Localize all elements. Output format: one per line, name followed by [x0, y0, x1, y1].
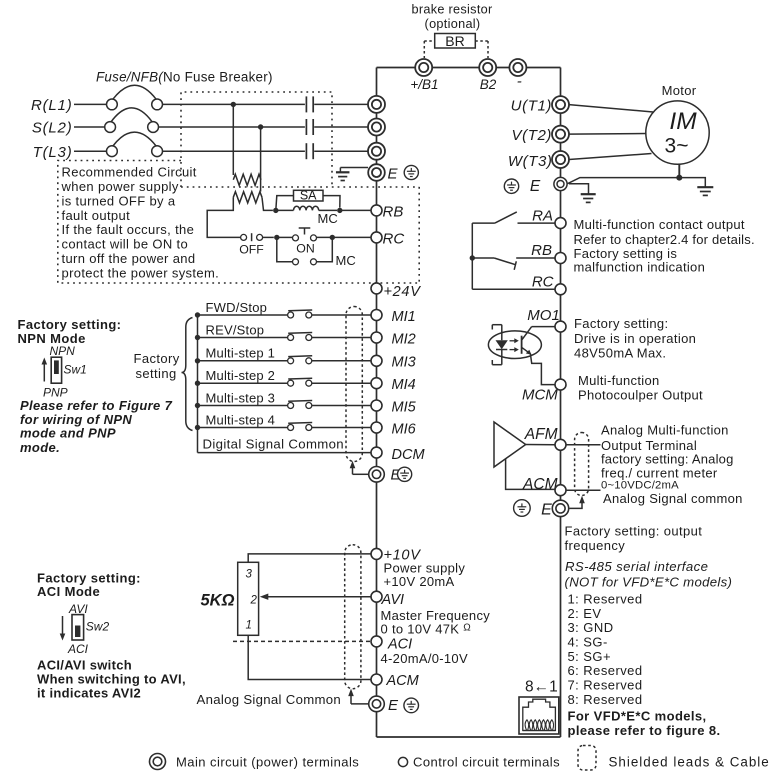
svg-text:Multi-step 2: Multi-step 2 [206, 368, 276, 383]
arrow Sw2 down [60, 616, 66, 641]
svg-text:0~10VDC/2mA: 0~10VDC/2mA [601, 480, 679, 492]
svg-text:Shielded leads & Cable: Shielded leads & Cable [609, 754, 770, 769]
svg-text:Drive is in operation: Drive is in operation [574, 331, 696, 346]
terminal +24V [371, 283, 421, 300]
svg-text:3~: 3~ [665, 135, 689, 158]
svg-text:MO1: MO1 [527, 307, 560, 324]
svg-text:+10V 20mA: +10V 20mA [384, 574, 455, 589]
svg-text:MI2: MI2 [392, 331, 416, 347]
label REV/Stop [206, 322, 265, 337]
svg-text:fault output: fault output [62, 208, 131, 223]
wire BR dashed left [424, 41, 434, 58]
note 4-20mA [381, 651, 468, 666]
svg-text:MC: MC [336, 253, 356, 268]
svg-text:2: EV: 2: EV [568, 606, 602, 621]
legend main circuit label [176, 754, 359, 769]
svg-text:ACI/AVI switch: ACI/AVI switch [37, 657, 132, 672]
node bus junction MI3 [195, 358, 200, 363]
resistor BR [435, 33, 476, 49]
terminal AVI [371, 591, 404, 608]
label Multi-step 4 [206, 412, 276, 427]
dashed box EMC filter [181, 92, 419, 187]
wire W to motor [569, 154, 652, 160]
svg-text:ACM: ACM [386, 673, 420, 689]
dashed box recommended circuit [58, 161, 419, 284]
wire relay RC [472, 288, 555, 290]
wire R(L1) to fuse [74, 103, 107, 105]
terminal +/B1 [410, 59, 438, 92]
label S(L2) [32, 120, 73, 137]
note ACI/AVI switch [37, 657, 186, 700]
svg-text:REV/Stop: REV/Stop [206, 322, 265, 337]
label factory setting brace [134, 351, 180, 381]
svg-text:contact will be ON to: contact will be ON to [62, 237, 189, 252]
note RS-485 serial interface [565, 559, 733, 589]
wire resistor to SA junction [262, 197, 273, 210]
optocoupler phototransistor [522, 327, 532, 355]
resistor S-phase [233, 192, 262, 203]
label Multi-step 3 [206, 390, 276, 405]
surge absorber SA [276, 189, 340, 211]
label PNP [43, 385, 68, 399]
terminal MI3 [371, 355, 416, 371]
svg-text:W(T3): W(T3) [508, 153, 553, 170]
wire bus to switch MI2 [198, 337, 288, 339]
svg-text:S(L2): S(L2) [32, 120, 73, 137]
svg-text:turn off the power and: turn off the power and [62, 251, 196, 266]
svg-text:malfunction indication: malfunction indication [574, 260, 706, 275]
svg-text:RC: RC [383, 230, 405, 247]
label E output [541, 502, 552, 519]
terminal MI6 [371, 421, 417, 437]
terminal B2 [479, 59, 497, 92]
switch Sw2 [72, 615, 109, 640]
legend shielded label [609, 754, 770, 769]
svg-text:MI5: MI5 [392, 399, 417, 415]
label T(L3) [33, 144, 73, 161]
switch MI6 (Multi-step 4) [288, 423, 313, 431]
terminal E analog [369, 696, 399, 714]
wire switch to terminal MI1 [312, 314, 372, 316]
terminal U(T1) [511, 96, 569, 115]
svg-text:Analog Multi-function: Analog Multi-function [601, 422, 729, 437]
wire bus to switch MI1 [198, 314, 288, 316]
svg-text:brake resistor: brake resistor [411, 3, 493, 17]
svg-text:Sw2: Sw2 [86, 619, 110, 633]
node bus junction MI4 [195, 381, 200, 386]
svg-text:V(T2): V(T2) [512, 127, 553, 144]
label AVI sw2 [68, 602, 88, 616]
svg-text:E: E [388, 166, 399, 183]
svg-text:BR: BR [445, 33, 464, 49]
node SA right junction [337, 208, 342, 213]
switch MI1 (FWD/Stop) [288, 310, 313, 318]
switch Sw1 [51, 357, 87, 383]
note recommended circuit [61, 164, 220, 280]
svg-text:mode and PNP: mode and PNP [20, 426, 116, 441]
terminal ACI [371, 636, 412, 653]
shield capsule digital [346, 307, 362, 462]
wire ACI dashed [233, 640, 371, 642]
label Analog Signal Common [197, 692, 342, 707]
fuse S(L2) [105, 108, 159, 132]
svg-text:is turned OFF by a: is turned OFF by a [62, 193, 176, 208]
terminal AFM [555, 439, 566, 450]
note power supply [384, 561, 466, 590]
wire S junction drop [260, 127, 262, 192]
wire T(L3) capacitor to terminal [314, 150, 368, 152]
wire switch to terminal MI3 [312, 360, 372, 362]
capacitor C-S(L2) [306, 119, 313, 135]
svg-text:please refer to figure 8.: please refer to figure 8. [568, 723, 721, 738]
svg-text:For VFD*E*C models,: For VFD*E*C models, [568, 708, 707, 723]
optocoupler light arrows [510, 338, 519, 352]
svg-text:FWD/Stop: FWD/Stop [206, 300, 268, 315]
svg-text:6: Reserved: 6: Reserved [568, 663, 643, 678]
wire switch to terminal MI6 [312, 427, 372, 429]
svg-text:Multi-step 3: Multi-step 3 [206, 390, 276, 405]
terminal E digital [369, 467, 402, 484]
svg-text:Factory setting:: Factory setting: [574, 316, 668, 331]
node SA left junction [273, 208, 278, 213]
svg-text:4: SG-: 4: SG- [568, 634, 608, 649]
wire V to motor [569, 133, 646, 136]
svg-text:Control circuit terminals: Control circuit terminals [413, 754, 560, 769]
wire bus to switch MI4 [198, 382, 288, 384]
terminal DCM [371, 447, 425, 463]
svg-text:Digital Signal Common: Digital Signal Common [203, 437, 344, 452]
legend shielded symbol [578, 746, 596, 771]
wire switch to terminal MI2 [312, 337, 372, 339]
terminal MI1 [371, 309, 416, 325]
note MO1 factory setting [574, 316, 696, 360]
svg-text:-: - [517, 73, 522, 90]
switch relay RA [472, 212, 555, 223]
fuse R(L1) [107, 85, 163, 110]
label FWD/Stop [206, 300, 268, 315]
svg-text:Factory setting is: Factory setting is [574, 246, 678, 261]
shield capsule AFM [575, 433, 589, 496]
switch OFF [239, 233, 264, 256]
node MC contact right junction [330, 235, 335, 240]
wire switch to terminal MI4 [312, 382, 372, 384]
node junction on R(L1) [231, 102, 236, 107]
wire T(L3) to fuse [74, 150, 107, 152]
note factory setting ACI [37, 570, 141, 599]
switch relay RB [472, 258, 555, 270]
svg-text:protect the power system.: protect the power system. [62, 266, 220, 281]
terminal ACM analog [371, 673, 420, 689]
svg-text:RB: RB [531, 242, 552, 259]
wire S(L2) capacitor to terminal [314, 126, 368, 128]
wire ON to RC [317, 236, 372, 238]
auxiliary contact MC [277, 237, 333, 264]
svg-text:Recommended Circuit: Recommended Circuit [62, 164, 197, 179]
wire DCM [198, 452, 372, 454]
svg-text:MCM: MCM [522, 387, 558, 404]
label MC coil [318, 211, 338, 226]
switch MI5 (Multi-step 3) [288, 401, 313, 409]
note master frequency [381, 608, 491, 637]
earth circle symbol motor E [504, 179, 518, 193]
label AFM [524, 426, 558, 443]
node bus junction MI5 [195, 403, 200, 408]
terminal MCM [522, 379, 566, 403]
svg-text:RA: RA [532, 208, 553, 225]
pushbutton ON [293, 228, 317, 256]
wire switch to terminal MI5 [312, 405, 372, 407]
wire to ON contact [277, 236, 293, 238]
wire shield to E analog [348, 689, 369, 704]
svg-text:freq./ current meter: freq./ current meter [601, 465, 718, 480]
svg-text:Factory setting:: Factory setting: [37, 570, 141, 585]
node relay junction [470, 255, 475, 260]
earth symbol at input E [336, 168, 368, 181]
svg-text:7: Reserved: 7: Reserved [568, 678, 643, 693]
svg-text:8←1: 8←1 [525, 679, 558, 696]
node bus junction MI1 [195, 312, 200, 317]
label MO1 [527, 307, 560, 324]
svg-text:2: 2 [250, 595, 258, 607]
wire drive right rail [560, 68, 562, 738]
terminal RC relay [532, 274, 566, 295]
svg-text:E: E [541, 502, 552, 519]
node bus junction MI6 [195, 425, 200, 430]
label ACI sw2 [67, 642, 89, 656]
svg-text:it indicates AVI2: it indicates AVI2 [37, 685, 141, 700]
svg-text:setting: setting [136, 366, 177, 381]
legend control circuit terminal symbol [398, 757, 407, 766]
label ACM output [522, 476, 558, 493]
wire U to motor [569, 105, 653, 112]
earth symbol motor [679, 178, 713, 196]
wire E to motor ground [568, 178, 680, 184]
wire bus to switch MI5 [198, 405, 288, 407]
wire AFM shielded stub [566, 444, 601, 446]
label brake resistor [411, 3, 493, 32]
legend control circuit label [413, 754, 560, 769]
wire bus to switch MI6 [198, 427, 288, 429]
wire shield to E AFM [570, 496, 585, 509]
svg-text:8: Reserved: 8: Reserved [568, 692, 643, 707]
svg-text:MI4: MI4 [392, 377, 416, 393]
svg-text:Analog Signal common: Analog Signal common [603, 491, 743, 506]
optocoupler LED pins [492, 325, 502, 365]
terminal E motor side [554, 177, 567, 190]
svg-text:Multi-function contact output: Multi-function contact output [574, 217, 745, 232]
svg-text:When switching to AVI,: When switching to AVI, [37, 671, 186, 686]
terminal MI5 [371, 399, 417, 415]
optocoupler ellipse [488, 331, 541, 359]
terminal RA [532, 208, 566, 229]
svg-text:MI3: MI3 [392, 355, 416, 371]
earth circle symbol digital E [398, 467, 412, 481]
switch MI2 (REV/Stop) [288, 333, 313, 341]
note multi-function contact output [574, 217, 755, 275]
svg-text:when power supply: when power supply [61, 179, 179, 194]
svg-text:frequency: frequency [565, 538, 626, 553]
earth symbol at E terminal [569, 184, 596, 203]
resistor R-phase [233, 174, 261, 185]
wire emitter to MCM [530, 354, 555, 385]
connector RJ45 [519, 697, 559, 734]
svg-text:U(T1): U(T1) [511, 98, 552, 115]
svg-text:AVI: AVI [381, 592, 405, 608]
wire T(L3) fuse to capacitor [163, 150, 305, 152]
wire SA junction to RB [340, 209, 372, 211]
svg-text:RC: RC [532, 274, 554, 291]
wire amplifier to ACM [506, 459, 556, 490]
svg-text:Analog Signal Common: Analog Signal Common [197, 692, 342, 707]
terminal - (minus) [509, 59, 526, 90]
svg-text:SA: SA [300, 189, 317, 203]
terminal ACM output [555, 485, 566, 496]
dashed box fault-circuit right edge [418, 187, 420, 283]
terminal V(T2) [512, 126, 570, 145]
contactor coil MC [276, 206, 337, 210]
svg-text:OFF: OFF [239, 243, 264, 257]
terminal +10V [371, 547, 421, 563]
wire drive top bus [377, 67, 561, 69]
terminal MO1 [555, 321, 566, 332]
svg-text:ACI Mode: ACI Mode [37, 584, 100, 599]
svg-text:4-20mA/0-10V: 4-20mA/0-10V [381, 651, 468, 666]
wire S(L2) to fuse [74, 126, 105, 128]
label Motor [662, 83, 697, 98]
svg-text:Factory setting: output: Factory setting: output [565, 523, 703, 538]
wire S(L2) fuse to capacitor [159, 126, 305, 128]
svg-text:ACI: ACI [67, 642, 89, 656]
svg-text:+24V: +24V [384, 284, 422, 300]
fuse T(L3) [107, 132, 163, 157]
wire pot pin1 to ACM [248, 635, 371, 679]
svg-text:DCM: DCM [392, 447, 426, 463]
label 8 to 1 [525, 679, 558, 696]
svg-text:MI6: MI6 [392, 421, 417, 437]
svg-text:(optional): (optional) [425, 17, 481, 31]
svg-text:AFM: AFM [524, 426, 558, 443]
note VFD*E*C models [568, 708, 721, 738]
brace factory setting [182, 318, 193, 431]
note multi-function photocoupler [578, 373, 703, 403]
legend main circuit terminal symbol [150, 754, 166, 770]
svg-text:NPN: NPN [50, 344, 76, 358]
svg-text:Fuse/NFB(No Fuse Breaker): Fuse/NFB(No Fuse Breaker) [96, 70, 273, 85]
terminal MI2 [371, 331, 416, 347]
svg-text:Motor: Motor [662, 83, 697, 98]
node junction on S(L2) [258, 124, 263, 129]
svg-text:ON: ON [296, 242, 314, 256]
wire digital common bus [197, 315, 199, 453]
wire bus to switch MI3 [198, 360, 288, 362]
svg-text:Factory: Factory [134, 351, 180, 366]
switch MI4 (Multi-step 2) [288, 378, 313, 386]
label NPN [50, 344, 76, 358]
svg-text:Sw1: Sw1 [64, 362, 87, 376]
svg-text:Multi-function: Multi-function [578, 373, 660, 388]
svg-text:mode.: mode. [20, 440, 60, 455]
wire R(L1) fuse to capacitor [163, 103, 305, 105]
wire resistor to OFF loop [207, 197, 240, 237]
terminal RC drive [371, 230, 404, 247]
earth circle symbol analog E [404, 698, 419, 713]
wire shield to E digital [350, 461, 369, 475]
wire AVI to pot wiper [260, 594, 372, 600]
label Fuse/NFB [96, 70, 273, 85]
svg-text:(NOT for VFD*E*C models): (NOT for VFD*E*C models) [565, 574, 733, 589]
note RS-485 pin list [568, 591, 643, 706]
label MC contact [336, 253, 356, 268]
arrow Sw1 up [42, 358, 48, 382]
wire relay left rail [471, 223, 473, 289]
wire R junction drop [232, 104, 234, 175]
wire R(L1) capacitor to terminal [314, 103, 368, 105]
svg-text:MI1: MI1 [392, 309, 416, 325]
amplifier AFM [494, 422, 556, 467]
note factory setting output frequency [565, 523, 703, 552]
svg-text:3: 3 [246, 569, 253, 581]
wire motor ground drop [678, 164, 680, 177]
wire drive bottom edge [377, 736, 561, 738]
earth circle symbol input E [404, 165, 418, 179]
note analog output [601, 422, 743, 506]
note factory setting NPN [18, 317, 122, 346]
svg-text:48V50mA Max.: 48V50mA Max. [574, 345, 666, 360]
svg-text:1: Reserved: 1: Reserved [568, 591, 643, 606]
svg-text:0 to 10V 47K Ω: 0 to 10V 47K Ω [381, 621, 472, 636]
svg-text:Main circuit (power) terminals: Main circuit (power) terminals [176, 754, 359, 769]
wire collector to MO1 [532, 326, 556, 328]
node motor ground junction [676, 175, 682, 181]
node bus junction MI2 [195, 335, 200, 340]
terminal T(L3) [368, 143, 385, 160]
svg-text:1: 1 [246, 620, 252, 632]
label Multi-step 1 [206, 346, 276, 361]
terminal E input [368, 164, 398, 182]
terminal E output [552, 500, 568, 516]
svg-text:RB: RB [383, 203, 404, 220]
svg-text:E: E [388, 697, 399, 714]
terminal R(L1) [368, 96, 385, 113]
shield capsule analog [345, 545, 361, 689]
capacitor C-R(L1) [306, 96, 313, 112]
earth circle symbol output E [514, 500, 531, 517]
svg-text:B2: B2 [480, 77, 497, 92]
terminal RB relay [531, 242, 566, 264]
wire OFF to ON junction [263, 236, 274, 238]
wire ACM shielded stub [566, 489, 601, 491]
svg-text:3: GND: 3: GND [568, 620, 614, 635]
label Multi-step 2 [206, 368, 276, 383]
wire drive left rail [376, 68, 378, 738]
terminal S(L2) [368, 119, 385, 136]
label Digital Signal Common [203, 437, 344, 452]
potentiometer 5K [238, 562, 259, 635]
svg-text:MC: MC [318, 211, 338, 226]
label R(L1) [31, 97, 73, 114]
svg-text:Factory setting:: Factory setting: [18, 317, 122, 332]
motor IM [646, 101, 709, 164]
svg-text:Multi-step 4: Multi-step 4 [206, 412, 276, 427]
terminal MI4 [371, 377, 416, 393]
svg-text:ACM: ACM [522, 476, 558, 493]
terminal RB drive [371, 203, 403, 220]
svg-text:5: SG+: 5: SG+ [568, 649, 612, 664]
optocoupler LED [496, 325, 508, 365]
svg-text:IM: IM [669, 108, 697, 135]
wire pot pin3 to +10V [248, 554, 371, 562]
svg-text:Multi-step 1: Multi-step 1 [206, 346, 276, 361]
